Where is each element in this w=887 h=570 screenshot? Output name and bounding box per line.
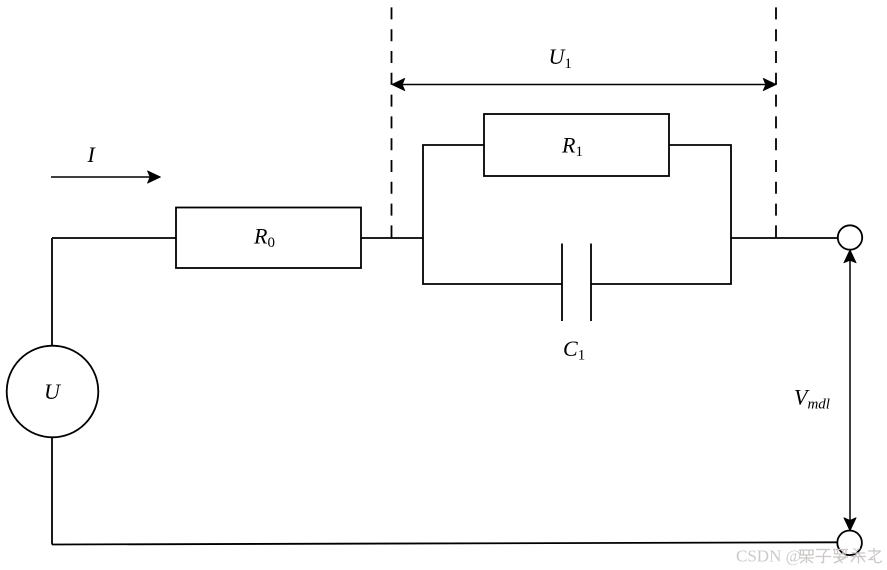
- label I: [87, 142, 97, 167]
- 老: [868, 548, 882, 563]
- label Vmdl: [794, 385, 830, 413]
- svg-text:CSDN @: CSDN @: [736, 547, 801, 566]
- label C1: [563, 336, 585, 364]
- 养: [851, 548, 866, 564]
- wire bottom return: [52, 542, 837, 544]
- wire source top: [51, 238, 53, 346]
- watermark CSDN: [736, 547, 801, 566]
- wire source to R0: [52, 237, 176, 239]
- resistor R0: [176, 208, 361, 269]
- 子: [816, 550, 832, 564]
- wire parallel block left branch: [423, 145, 562, 284]
- wire source bottom: [51, 437, 53, 544]
- svg-text:U: U: [44, 379, 62, 404]
- wire R0 to parallel block: [361, 237, 423, 239]
- node boundary dashed line right: [775, 7, 777, 238]
- 栗: [799, 550, 814, 563]
- node boundary dashed line left: [391, 7, 393, 238]
- wire parallel block to terminal: [731, 237, 838, 239]
- voltage source U: [7, 346, 99, 438]
- resistor R1: [484, 114, 669, 176]
- terminal node top: [838, 225, 862, 249]
- voltage arrow Vmdl: [844, 250, 856, 531]
- label U1: [549, 44, 572, 72]
- terminal node bottom: [837, 531, 862, 556]
- dimension arrow U1: [392, 78, 776, 90]
- watermark username glyphs: [799, 548, 882, 564]
- capacitor C1: [562, 244, 591, 322]
- current arrow I: [51, 171, 161, 183]
- 要: [833, 550, 848, 564]
- wire parallel block right branch: [591, 145, 731, 284]
